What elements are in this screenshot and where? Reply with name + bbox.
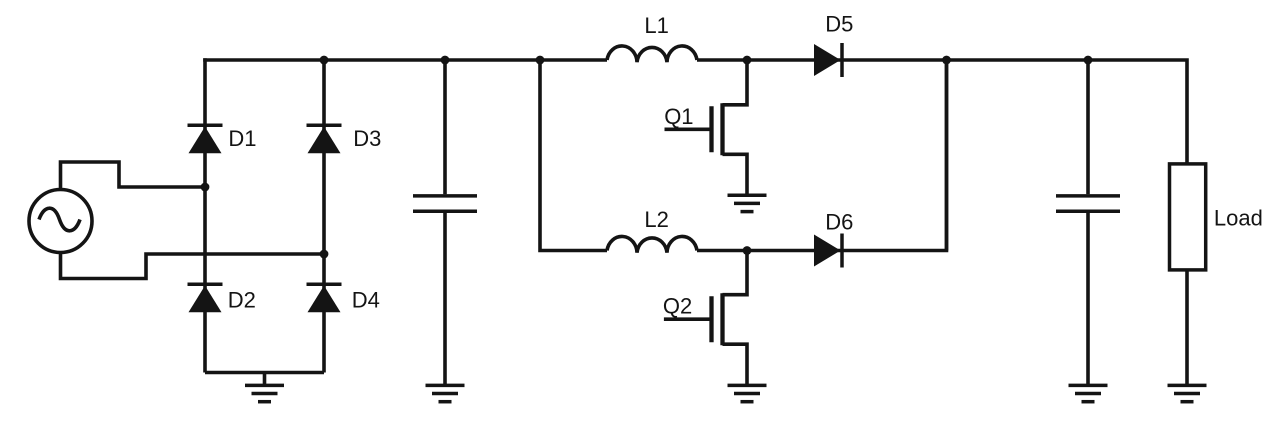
- ground C1: [426, 385, 465, 401]
- resistor Load: [1170, 164, 1206, 270]
- node bridge right output: [320, 56, 329, 65]
- inductor L2: [607, 236, 697, 252]
- svg-text:L1: L1: [644, 13, 668, 38]
- svg-text:Q1: Q1: [664, 104, 693, 129]
- svg-text:Q2: Q2: [663, 293, 692, 318]
- node C1 top: [441, 56, 450, 65]
- wire top rail right section: [697, 60, 1187, 164]
- wire source top lead: [61, 162, 206, 190]
- diode D5: [814, 43, 842, 77]
- diode D2: [188, 284, 223, 312]
- svg-text:D4: D4: [352, 288, 380, 313]
- svg-text:D1: D1: [228, 126, 256, 151]
- node Q1 drain: [743, 56, 752, 65]
- wire bridge right leg: [322, 58, 326, 372]
- wire D6 output riser: [945, 60, 949, 251]
- svg-text:Load: Load: [1214, 206, 1263, 231]
- node Q2 drain: [743, 246, 752, 255]
- wire top rail left section: [203, 58, 607, 62]
- ac source V1: [29, 190, 92, 253]
- svg-text:L2: L2: [644, 207, 668, 232]
- diode D1: [188, 125, 223, 153]
- transistor Q2: [664, 293, 723, 345]
- diode D4: [307, 284, 342, 312]
- wire Q1 drain: [723, 60, 748, 105]
- node C2 top: [1084, 56, 1093, 65]
- ground bridge: [245, 373, 284, 402]
- wire L2 branch tap: [540, 60, 607, 251]
- inductor L1: [607, 46, 697, 62]
- diode D3: [307, 125, 342, 153]
- ground C2: [1069, 385, 1108, 401]
- svg-text:D6: D6: [825, 210, 853, 235]
- wire L2 to D6 and riser to output node: [697, 60, 947, 251]
- node source to right leg: [320, 250, 329, 259]
- svg-text:D2: D2: [228, 288, 256, 313]
- svg-text:D3: D3: [353, 126, 381, 151]
- capacitor C2: [1056, 60, 1120, 385]
- wire source bottom lead: [61, 253, 325, 279]
- capacitor C1: [413, 60, 477, 385]
- node source to left leg: [201, 183, 210, 192]
- wire Q2 source: [723, 344, 748, 385]
- transistor Q1: [665, 103, 723, 155]
- ground load: [1168, 385, 1207, 401]
- ground Q1: [728, 195, 767, 211]
- ground Q2: [728, 385, 767, 401]
- wire Q1 source: [723, 154, 748, 195]
- svg-text:D5: D5: [825, 12, 853, 37]
- node D6 merge: [942, 56, 951, 65]
- wire bridge bottom rail: [205, 371, 324, 375]
- wire bridge left leg: [203, 58, 207, 372]
- wire load bottom: [1185, 270, 1189, 386]
- node L2 tap: [536, 56, 545, 65]
- wire Q2 drain: [723, 251, 748, 295]
- diode D6: [814, 234, 842, 268]
